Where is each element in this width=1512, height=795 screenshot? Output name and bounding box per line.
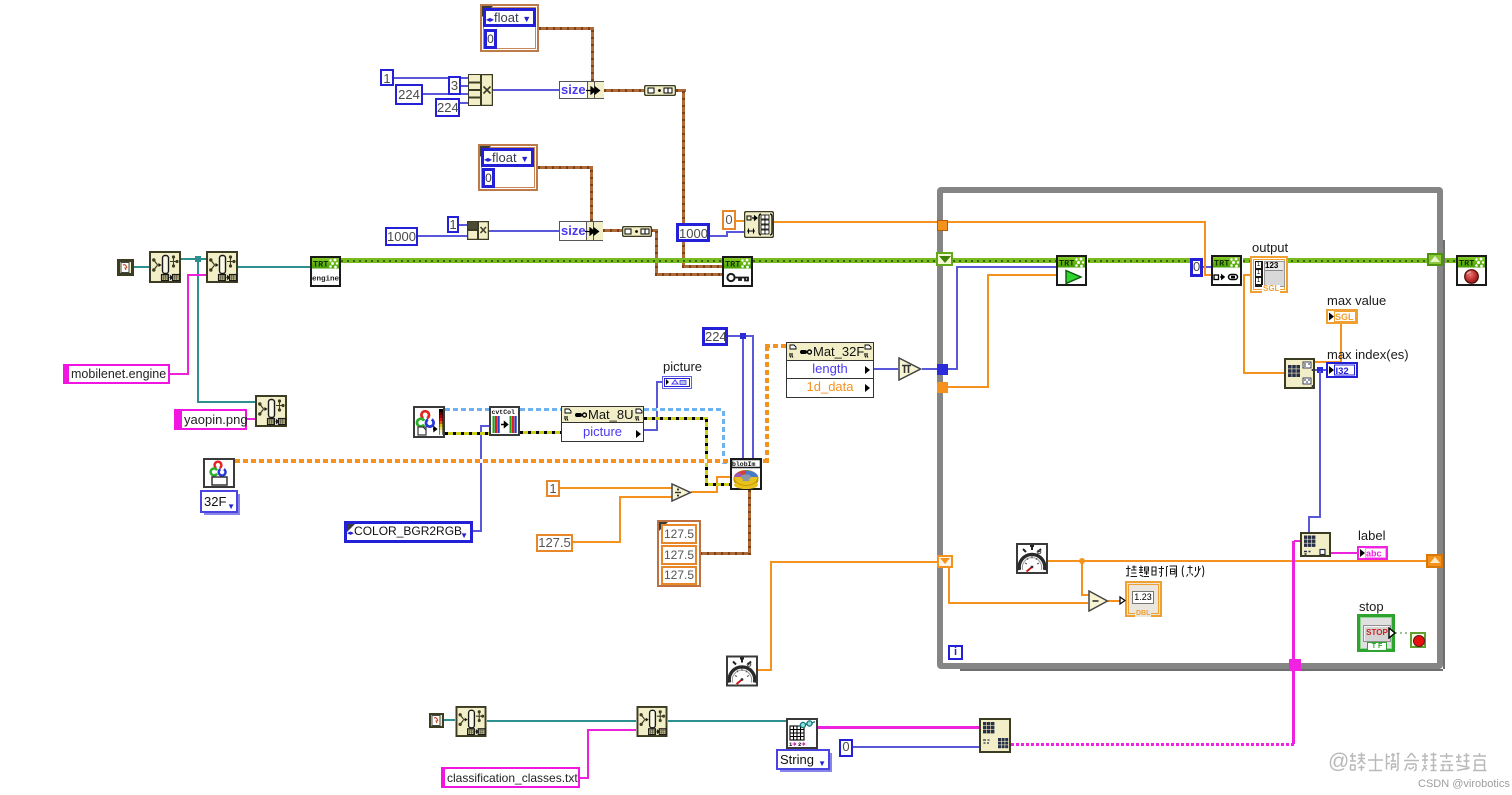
wire orange leftSR h — [948, 602, 1088, 604]
index array node label — [1300, 532, 1331, 557]
wire brown size1 out — [604, 89, 644, 92]
svg-text:blobIm: blobIm — [732, 461, 756, 468]
wire img cvt mat — [520, 431, 561, 434]
label max value — [1327, 293, 1386, 308]
wire blue colorenum b — [480, 425, 489, 427]
wire orange arr2mat out — [774, 221, 938, 223]
wire blue 1000b a — [710, 235, 728, 237]
wire teal down v — [197, 258, 199, 403]
label inference time chinese — [1125, 565, 1205, 578]
wire green SR to close — [1441, 258, 1456, 263]
wire magenta yaopin — [246, 418, 255, 420]
wire magenta mobile h — [170, 373, 188, 375]
wire orange maxval v — [1340, 323, 1342, 363]
label picture — [663, 359, 702, 374]
junction blue 224c — [740, 333, 746, 339]
loop condition terminal — [1410, 632, 1426, 648]
indicator output array — [1250, 256, 1288, 293]
wire magenta mobile v — [187, 274, 189, 375]
wire teal b1 b2 — [487, 720, 636, 722]
tunnel orange mid — [937, 382, 948, 393]
wire brown meanscluster h — [700, 552, 751, 555]
wire blue mult2 out — [489, 230, 559, 232]
shift register orange left — [937, 555, 953, 568]
Mat_8U property node — [561, 406, 644, 442]
wire brown idx1 out — [676, 89, 686, 92]
wire blue maxidx h — [1315, 369, 1326, 371]
wire orange exec down v — [1243, 274, 1245, 374]
wire brown v2 — [655, 229, 658, 275]
wire orange one to divide — [559, 487, 672, 489]
indicator label abc — [1357, 546, 1388, 560]
while loop shadow right — [1443, 240, 1445, 669]
wire enum32f h — [235, 459, 768, 463]
wire blue zero exec — [1203, 266, 1211, 268]
wire blue const224b — [460, 102, 468, 104]
wire orange 127 h — [573, 541, 621, 543]
while loop shadow bottom — [960, 669, 1443, 671]
wire blue tunnel h — [947, 368, 958, 370]
iteration terminal i — [948, 645, 963, 660]
shift register green right — [1427, 253, 1443, 266]
wire magenta dotted bottom — [1011, 743, 1294, 746]
wire brown size2 out — [603, 229, 622, 232]
numeric constant 1 b — [447, 216, 459, 233]
wire magenta classif h2 — [587, 729, 636, 731]
imaq color mode icon 32F — [203, 458, 235, 488]
wire blue const224a — [423, 93, 468, 95]
wire orange 127 h2 — [619, 496, 672, 498]
wire orange to rightSR — [1082, 560, 1428, 562]
junction teal — [195, 256, 201, 262]
wire cyan cvt mat — [520, 408, 561, 411]
wire brown cluster2 v — [590, 166, 593, 221]
divide node — [671, 483, 692, 502]
indicator picture — [662, 376, 692, 389]
wire orange divide jog h — [716, 476, 731, 478]
wire brown cluster1 v — [591, 27, 594, 81]
svg-text:2: 2 — [798, 741, 801, 748]
wire blue zero bottom — [853, 746, 979, 748]
read spreadsheet node — [786, 718, 818, 749]
wire blue labelidx v — [1308, 516, 1310, 533]
wire orange into run — [987, 274, 1056, 276]
wire orange zeroconst — [735, 220, 744, 222]
unflatten node 3 — [255, 395, 287, 427]
combobox String — [776, 749, 830, 770]
reciprocal node — [898, 357, 922, 381]
wire orange sub out — [1108, 600, 1123, 602]
numeric constant 224 c — [702, 327, 728, 346]
blobImage node — [730, 458, 762, 490]
wire bool stop — [1395, 632, 1410, 634]
numeric constant 224 b — [435, 98, 460, 117]
unflatten node 1 — [149, 251, 181, 283]
label output — [1252, 240, 1288, 255]
array to matrix node — [744, 211, 774, 238]
wire orange sub top h — [1081, 594, 1089, 596]
stopwatch node in loop — [1016, 543, 1048, 574]
wire blue maxidx v — [1319, 371, 1321, 517]
numeric constant 3 — [448, 76, 461, 95]
wire teal node2 engine — [237, 266, 310, 268]
wire magenta mobile h2 — [187, 274, 206, 276]
wire blue 1000b b — [726, 231, 744, 233]
cluster constant 127.5 x3 — [657, 520, 701, 587]
wire blue const1 — [394, 77, 468, 79]
wire cyan blob v — [722, 408, 725, 464]
compound multiply node — [468, 74, 493, 106]
svg-text:cvtCol: cvtCol — [492, 409, 516, 416]
wire img blob v — [705, 417, 708, 486]
svg-text:abc: abc — [1366, 549, 1382, 559]
numeric constant 1000 b — [676, 223, 710, 242]
junction magenta bottom border — [1289, 659, 1301, 671]
file path constant icon 2 — [429, 713, 444, 728]
numeric 0 in cluster 1 — [484, 29, 497, 49]
wire blue picture h1 — [644, 429, 658, 431]
wire blue 224c out — [728, 335, 754, 337]
wire orange 1ddata v — [987, 275, 989, 388]
wire blue inloop h — [956, 266, 1056, 268]
unflatten node b2 — [636, 706, 668, 737]
TRT close node — [1456, 255, 1488, 287]
wire teal file2 — [443, 719, 455, 721]
wire img mat h — [644, 417, 708, 420]
numeric constant 1 — [380, 69, 394, 86]
wire magenta label ind — [1331, 552, 1357, 554]
label stop — [1359, 599, 1384, 614]
wire brown cluster2 h — [538, 166, 592, 169]
wire orange stopwatch1 out — [1048, 560, 1082, 562]
tunnel blue mid — [937, 364, 948, 375]
unflatten node 2 — [206, 251, 238, 283]
size node 1 — [559, 81, 604, 99]
wire img read cvt — [445, 432, 489, 435]
label max indexes — [1327, 347, 1409, 362]
numeric constant 1000 — [385, 227, 418, 246]
combobox float 2 — [481, 148, 534, 167]
wire green engine to key — [341, 258, 722, 263]
wire cyan read cvt — [445, 408, 489, 411]
indicator max value SGL — [1326, 309, 1358, 324]
wire brown main v — [682, 89, 685, 268]
Mat_32F property node — [786, 342, 874, 398]
array max min node — [1284, 358, 1315, 389]
wire brown cluster1 h — [539, 27, 593, 30]
wire orange to maxmin — [1243, 372, 1284, 374]
wire blue 224c v2 — [752, 335, 754, 458]
TRT engine node — [310, 256, 341, 287]
cluster constant float 2 — [478, 144, 538, 191]
wire brown idx2 out — [651, 229, 658, 232]
wire green run to zero — [1088, 258, 1190, 263]
wire brown into key2 — [655, 273, 722, 276]
wire blue recip out — [922, 368, 939, 370]
wire green exec to SR — [1243, 258, 1429, 263]
size node 2 — [559, 221, 603, 241]
wire enum32f h2 — [765, 344, 786, 348]
cluster constant float 1 — [480, 4, 539, 52]
wire orange inloop top h — [947, 221, 1206, 223]
unflatten node b1 — [455, 706, 487, 737]
combobox 32F — [200, 490, 238, 513]
index cluster node 1 — [644, 85, 676, 96]
multiply node 2 — [467, 221, 489, 240]
stopwatch node below loop — [726, 655, 758, 687]
shift register orange right — [1426, 554, 1443, 568]
wire blue const1000 — [418, 235, 467, 237]
wire green key to loop — [753, 258, 938, 263]
wire orange divide jog v — [716, 476, 718, 493]
stop button terminal — [1357, 614, 1395, 652]
wire teal b2 spread — [668, 720, 786, 722]
wire magenta riser inloop — [1292, 541, 1295, 661]
cvtColor node — [489, 406, 520, 436]
read image node — [413, 406, 445, 438]
TRT get result node — [1211, 255, 1242, 287]
numeric constant 224 a — [395, 84, 423, 105]
wire orange into exec — [1204, 274, 1211, 276]
wire blue const3 — [461, 85, 468, 87]
wire brown into key — [682, 265, 722, 268]
label label — [1358, 528, 1385, 543]
wire orange leftSR v — [948, 567, 950, 604]
numeric constant 0 in loop — [1190, 258, 1203, 277]
wire green SR to run — [953, 258, 1056, 263]
wire blue length out — [874, 368, 898, 370]
index cluster node 2 — [622, 226, 652, 237]
wire magenta riser below — [1292, 669, 1295, 744]
wire blue 224c v1 — [742, 335, 744, 458]
string constant classification_classes.txt — [441, 767, 580, 788]
string constant mobilenet.engine — [63, 364, 170, 384]
numeric constant 1 orange — [546, 480, 560, 497]
junction orange stopwatch — [1079, 558, 1085, 564]
wire orange tunnel2 h — [947, 386, 989, 388]
shift register green left — [936, 252, 953, 266]
numeric constant 127.5 — [536, 534, 573, 552]
watermark csdn — [1418, 778, 1510, 790]
wire orange stopwatch2 h — [770, 561, 938, 563]
wire blue picture v — [656, 381, 658, 431]
index array node bottom — [979, 718, 1011, 753]
wire blue 1000b v — [726, 231, 728, 237]
combobox COLOR_BGR2RGB — [344, 521, 473, 543]
indicator DBL inference time — [1125, 581, 1162, 617]
wire orange maxval h — [1315, 361, 1342, 363]
numeric constant 0 bottom — [839, 739, 853, 757]
wire blue mult1 out — [493, 89, 559, 91]
wire orange inloop top v — [1204, 221, 1206, 276]
wire orange stopwatch2 v — [770, 561, 772, 671]
wire orange stopwatch2 out — [758, 669, 772, 671]
string constant yaopin.png — [174, 409, 247, 430]
svg-text:engine: engine — [312, 276, 339, 284]
svg defs — [0, 0, 1, 1]
wire orange sub top v — [1081, 560, 1083, 596]
wire magenta classif h — [580, 777, 589, 779]
wire magenta into labelidx — [1294, 540, 1301, 542]
wire enum32f v — [765, 344, 769, 463]
wire teal node1 node2 — [181, 258, 206, 260]
wire blue picture h2 — [656, 381, 662, 383]
TRT deserialize key node — [722, 256, 753, 287]
wire teal to node3 — [197, 401, 255, 403]
wire cyan blob h — [722, 461, 731, 464]
wire orange exec out — [1243, 274, 1251, 276]
wire brown meanscluster v — [748, 489, 751, 555]
svg-text:SGL: SGL — [1335, 312, 1354, 322]
wire blue inloop v — [956, 267, 958, 370]
wire orange divide out — [691, 491, 718, 493]
watermark juejin chinese — [1328, 750, 1490, 774]
while loop border — [937, 187, 1443, 669]
wire orange 127 v — [619, 496, 621, 543]
tunnel orange top — [937, 220, 948, 231]
wire magenta spread idx — [818, 726, 979, 729]
junction blue maxidx — [1317, 367, 1323, 373]
file path constant icon 1 — [117, 259, 134, 276]
wire cyan mat blob — [644, 408, 725, 411]
TRT run node — [1056, 255, 1088, 287]
subtract node — [1088, 590, 1109, 612]
wire teal file1 — [134, 266, 150, 268]
wire img blob h — [705, 483, 731, 486]
wire blue labelidx h — [1308, 516, 1321, 518]
numeric constant 0 orange — [722, 210, 736, 230]
indicator max index I32 — [1326, 362, 1358, 378]
wire blue const1b — [459, 224, 467, 226]
combobox float 1 — [483, 8, 536, 27]
numeric 0 in cluster 2 — [482, 168, 495, 188]
wire magenta classif v — [587, 729, 589, 779]
wire blue colorenum v — [480, 425, 482, 532]
wire blue colorenum a — [473, 530, 482, 532]
